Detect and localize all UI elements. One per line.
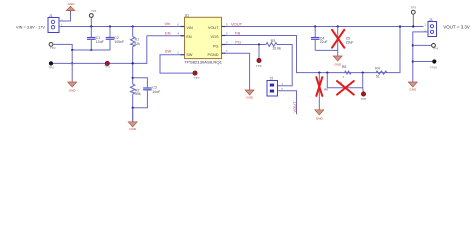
svg-text:VOUT: VOUT (231, 22, 243, 27)
svg-text:R1: R1 (135, 38, 140, 42)
ground (R2/C3) (128, 107, 137, 132)
wire R2/C3 top link (132, 77, 148, 88)
wire PG net (226, 44, 267, 46)
svg-text:Vin: Vin (165, 21, 171, 26)
svg-text:42k: 42k (134, 42, 140, 46)
wire EN to IC (147, 35, 185, 37)
ground (C4/C5) (333, 56, 342, 66)
svg-text:VIN: VIN (186, 26, 193, 30)
wire SW net (160, 55, 193, 73)
svg-text:100nF: 100nF (114, 40, 124, 44)
svg-text:PG: PG (213, 44, 219, 48)
svg-text:EN: EN (186, 35, 192, 39)
svg-text:TP3: TP3 (411, 6, 417, 10)
svg-text:TP2: TP2 (50, 46, 56, 50)
svg-text:30k: 30k (135, 92, 141, 96)
svg-text:C3: C3 (152, 85, 157, 89)
svg-text:TP7: TP7 (194, 76, 200, 80)
node VOUT vertical label (292, 101, 297, 113)
svg-text:10uF: 10uF (96, 40, 104, 44)
svg-text:PGND: PGND (208, 53, 219, 57)
svg-text:TPS82130ASILRQ1: TPS82130ASILRQ1 (185, 60, 223, 64)
test point TP1 (89, 9, 96, 28)
connector J1 (48, 14, 63, 33)
DNP X over R6 (316, 77, 322, 96)
wire TP2 to cap-bottom bus (53, 44, 72, 50)
test point TP4 (412, 44, 439, 51)
svg-text:10.0k: 10.0k (272, 47, 281, 51)
test point TP6 (black) (48, 61, 54, 69)
svg-text:FB: FB (235, 30, 240, 35)
node R6 faint label (324, 88, 328, 92)
node R5 DNP marker (343, 76, 344, 77)
wire VOUT rail (226, 26, 424, 28)
svg-text:VOS: VOS (210, 35, 218, 39)
capacitor C5 (DNP) (337, 25, 354, 50)
svg-text:R3: R3 (271, 39, 276, 43)
test point TP8 (red) (361, 88, 367, 102)
svg-text:R4: R4 (375, 67, 380, 71)
svg-text:TP1: TP1 (91, 9, 97, 13)
svg-text:GND: GND (334, 62, 342, 66)
test point TP5 (red, on bus) (104, 61, 110, 68)
svg-text:TP8: TP8 (361, 97, 367, 101)
ground (left bus) (68, 62, 77, 92)
test point TP3 (411, 6, 417, 28)
svg-text:GND: GND (316, 116, 324, 120)
svg-text:VOUT: VOUT (292, 101, 297, 113)
svg-text:22uF: 22uF (346, 40, 354, 44)
resistor R4 (375, 67, 387, 79)
output info text (443, 25, 470, 30)
svg-text:R5: R5 (342, 65, 347, 69)
ground (R6) (315, 96, 324, 120)
capacitor C2 (106, 25, 125, 50)
op-amp U1 (IC TPS82130) (185, 13, 223, 64)
DNP X over L1 (337, 81, 354, 95)
svg-text:EN: EN (165, 30, 171, 35)
test point TP10 (black) (412, 59, 438, 69)
inductor L1 (DNP bypass loop) (326, 72, 364, 88)
connector J3 (424, 18, 436, 36)
wire J2 pin2 VOUT stub (278, 91, 297, 114)
capacitor C4 (311, 25, 328, 50)
resistor R1 (131, 25, 141, 84)
wire PGND to ground (226, 53, 250, 90)
svg-text:TP4: TP4 (433, 47, 439, 51)
ground (PGND) (245, 90, 254, 100)
capacitor C3 (133, 85, 161, 107)
wire J3 pin2 to gnd vertical (413, 32, 428, 82)
wire J1 pin2 to GND (59, 11, 71, 21)
svg-text:GND: GND (409, 88, 417, 92)
svg-text:GND: GND (129, 127, 137, 131)
test point TP7 (red, SW) (193, 71, 200, 80)
node SW label (165, 48, 172, 53)
svg-text:GND: GND (246, 96, 254, 100)
ground (right) (408, 82, 417, 92)
capacitor C1 (87, 27, 104, 52)
resistor R2 (131, 84, 141, 122)
node FB label (235, 30, 240, 35)
svg-text:VIN = 3.8V - 17V: VIN = 3.8V - 17V (16, 25, 45, 29)
svg-text:GND: GND (68, 2, 76, 6)
resistor R3 (266, 39, 281, 51)
node FB/VOUT rail junction (399, 25, 401, 27)
wire C4/C5 bottom (315, 50, 338, 56)
svg-text:VOUT = 3.3V: VOUT = 3.3V (443, 25, 470, 30)
node EN junction on divider (132, 62, 134, 64)
wire FB net (226, 27, 401, 73)
connector J2 (267, 77, 283, 96)
svg-text:SW: SW (165, 48, 172, 53)
svg-text:SW: SW (186, 53, 193, 57)
test point TP2 (49, 43, 56, 50)
node VOUT label (231, 22, 243, 27)
input info text (16, 25, 45, 29)
svg-text:VOUT: VOUT (208, 26, 219, 30)
node PG label (235, 40, 241, 45)
node Vin label (165, 21, 171, 26)
wire gnd vertical (71, 50, 73, 63)
resistor R6 (DNP, to ground) (318, 72, 320, 97)
svg-text:22uF: 22uF (320, 40, 328, 44)
node EN label (165, 30, 171, 35)
svg-text:TP5: TP5 (104, 65, 110, 69)
svg-text:51: 51 (376, 75, 380, 79)
pin stubs and numbers U1 (177, 22, 228, 54)
DNP X over C5 (332, 30, 344, 48)
wire lower EN/GND bus (53, 36, 147, 64)
svg-text:GND: GND (69, 89, 77, 93)
wire cap ground bus (71, 49, 110, 51)
wire PG to J2 pin1 (277, 45, 292, 86)
test point TP9 (red, PG) (256, 43, 262, 68)
svg-text:TP10: TP10 (430, 65, 438, 69)
svg-text:TP9: TP9 (256, 64, 262, 68)
wire VIN rail (59, 26, 185, 28)
svg-text:TP6: TP6 (48, 66, 54, 70)
svg-text:PG: PG (235, 40, 241, 45)
resistor R5 (inline) (340, 65, 351, 85)
ground (J1 top, pointing up) (66, 2, 75, 11)
svg-text:10nF: 10nF (152, 90, 160, 94)
